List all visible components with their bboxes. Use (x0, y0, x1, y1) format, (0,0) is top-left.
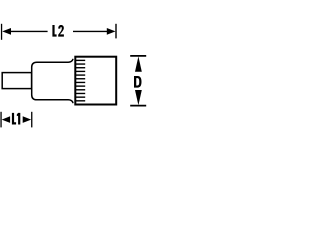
dimension D: bottom extension tick (130, 105, 146, 107)
dimension L2: label L2 (52, 25, 64, 37)
dimension D: down arrowhead (135, 90, 142, 105)
dimension D: up arrowhead (135, 56, 142, 71)
dimension L1: right extension tick (31, 112, 32, 128)
dimension L2: right extension tick (115, 24, 116, 39)
dimension L1: left arrowhead (2, 116, 10, 123)
dimension L2: left arrowhead (2, 28, 11, 35)
socket bit shaft (2, 73, 31, 89)
knurling lines on socket body (75, 60, 85, 100)
socket bit holder (rounded collar) (32, 59, 73, 102)
dimension D: top extension tick (130, 55, 146, 57)
dimension L1: right arrowhead (23, 116, 32, 123)
dimension L2: right arrowhead (107, 28, 116, 35)
dimension L2: left line segment (10, 30, 48, 32)
dimension L1: left extension tick (0, 112, 1, 128)
dimension D: label D (134, 76, 142, 88)
dimension L1: label L1 (12, 113, 20, 125)
dimension L2: left extension tick (1, 24, 2, 40)
dimension L2: right line segment (73, 30, 107, 32)
socket body (75, 57, 116, 105)
